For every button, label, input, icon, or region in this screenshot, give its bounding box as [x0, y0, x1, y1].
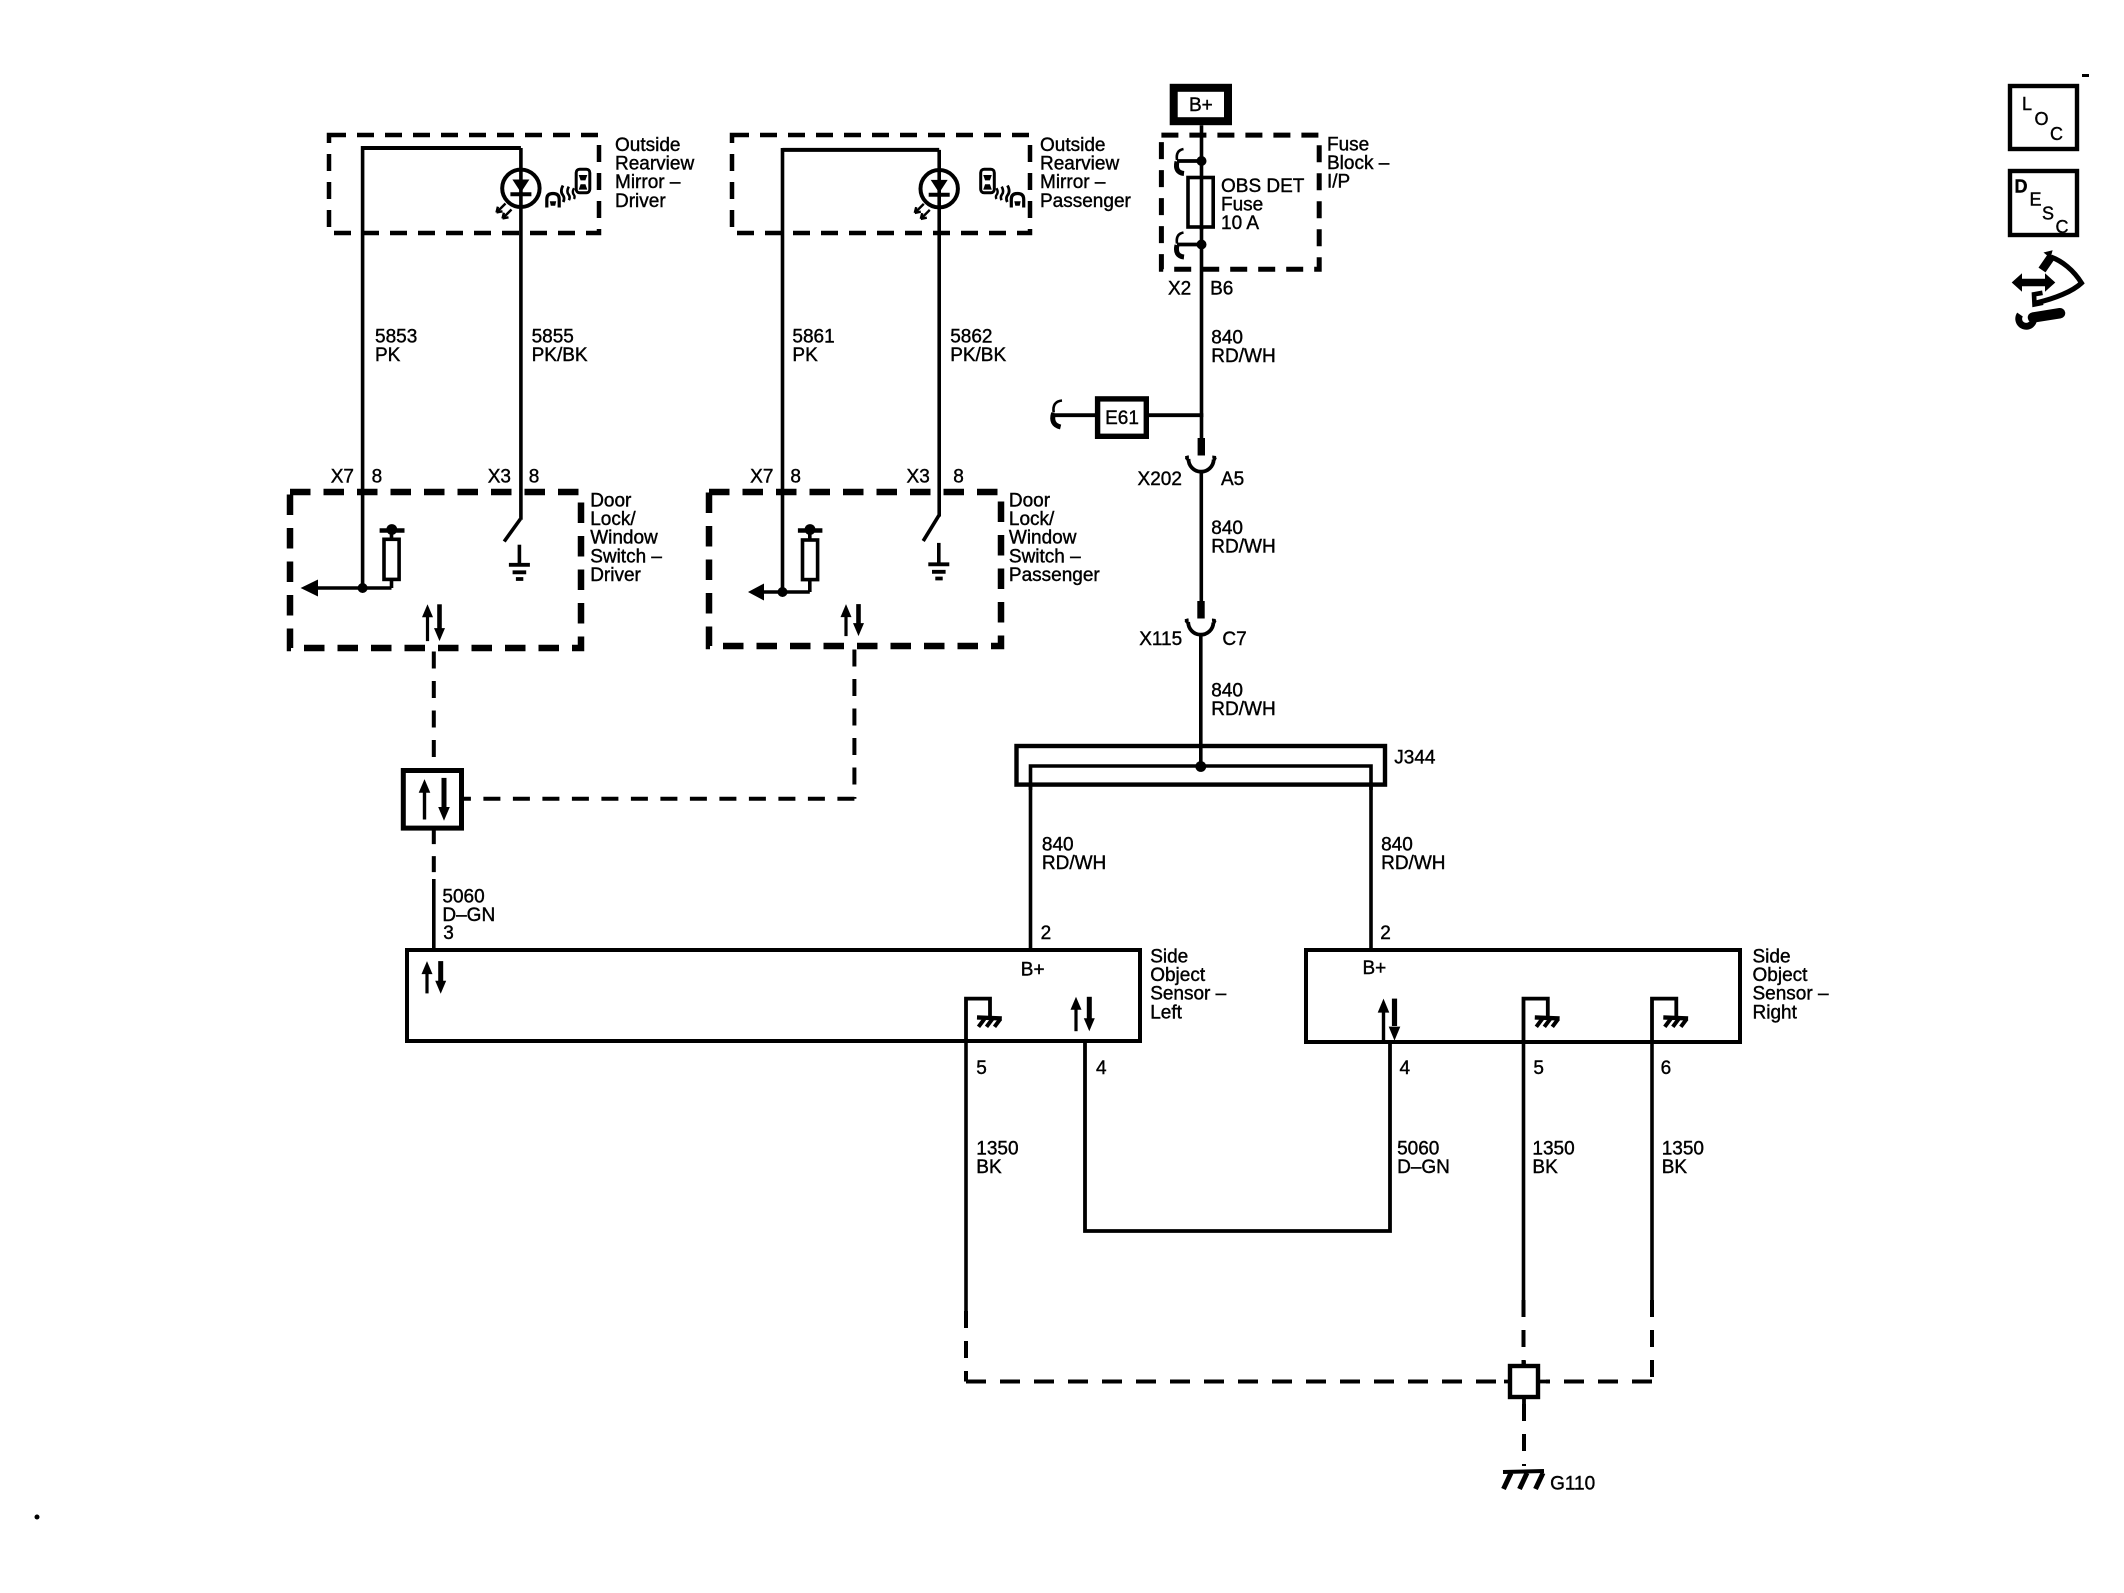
wire label 840 RD/WH (left drop): [1042, 835, 1106, 875]
arrowhead left (passenger switch): [748, 584, 764, 601]
door lock/window switch driver dashed box: [290, 492, 581, 648]
wire 1350 BK right sensor pin 5: [1522, 1042, 1526, 1300]
dashed ground run to G110 splice: [966, 1380, 1504, 1384]
resistor (driver switch illumination): [380, 524, 405, 588]
connector label X7 8 (driver): [331, 467, 382, 488]
svg-text:RD/WH: RD/WH: [1211, 699, 1275, 720]
wire 5060 D-GN to left sensor pin 3: [432, 879, 436, 950]
dashed wire driver switch to arrow box: [432, 652, 436, 771]
svg-text:8: 8: [372, 467, 383, 488]
splice pack J344: [1017, 746, 1386, 790]
wire 5861 PK (passenger pin X7-8): [781, 148, 785, 592]
wire X202 to X115: [1200, 471, 1204, 604]
service icon wrench: [2019, 313, 2060, 326]
wire fuse to X202: [1200, 227, 1204, 440]
B+ power symbol: [1174, 88, 1228, 121]
wire 5853 PK (driver pin X7-8): [361, 146, 365, 588]
outside rearview mirror passenger dashed box: [732, 135, 1030, 233]
junction dot (passenger switch): [778, 587, 788, 597]
ground (driver switch): [509, 545, 530, 579]
dashed wire right pin 6 to G110 splice: [1546, 1380, 1652, 1384]
service icon double arrow: [2012, 273, 2056, 292]
svg-text:8: 8: [529, 467, 540, 488]
svg-text:Driver: Driver: [590, 565, 641, 586]
wire B+ to fuse: [1200, 125, 1204, 230]
svg-text:J344: J344: [1394, 748, 1436, 769]
wire mirror driver internal top: [363, 146, 521, 150]
ground (right sensor pin 5 internal): [1524, 999, 1560, 1040]
wire label 1350 BK (left): [976, 1139, 1018, 1179]
fuse terminal upper: [1176, 149, 1206, 174]
switch blade (driver): [504, 519, 520, 542]
resistor (passenger switch illumination): [798, 524, 823, 592]
svg-text:X7: X7: [331, 467, 354, 488]
svg-text:BK: BK: [1532, 1157, 1558, 1178]
svg-text:X202: X202: [1138, 469, 1182, 490]
svg-text:2: 2: [1041, 923, 1052, 944]
svg-text:8: 8: [790, 467, 801, 488]
dashed wire left pin 5 to ground run: [964, 1311, 968, 1382]
ground (passenger switch): [928, 543, 949, 579]
side object sensor left box: [407, 950, 1140, 1041]
outside rearview mirror driver dashed box: [329, 135, 599, 233]
wire 5855 PK/BK (driver pin X3-8): [519, 148, 523, 520]
wire label 840 RD/WH (2): [1211, 518, 1275, 558]
svg-text:4: 4: [1096, 1058, 1107, 1079]
up/down arrows (left sensor pin 4): [1071, 997, 1095, 1031]
svg-text:C7: C7: [1222, 629, 1246, 650]
wire 5060 D-GN pin4 to pin4: [1085, 1041, 1390, 1231]
wire X115 to J344: [1199, 634, 1203, 769]
up/down arrows (driver switch): [422, 604, 445, 641]
dashed wire passenger to arrow box horizontal: [462, 797, 855, 801]
ground splice junction box: [1504, 1361, 1546, 1405]
svg-text:B6: B6: [1210, 279, 1233, 300]
wire 5862 PK/BK (passenger pin X3-8): [937, 150, 941, 517]
svg-text:X115: X115: [1139, 629, 1182, 650]
up/down arrows (right sensor pin 4): [1378, 999, 1401, 1041]
up/down arrows (left sensor pin 3): [422, 961, 447, 994]
wire label 5060 D-GN: [442, 887, 495, 927]
svg-text:A5: A5: [1221, 469, 1244, 490]
label: Side Object Sensor - Right: [1753, 947, 1829, 1024]
label: OBS DET Fuse 10 A: [1221, 176, 1305, 234]
svg-text:C: C: [2050, 124, 2063, 144]
svg-text:D: D: [2015, 177, 2028, 197]
wire 840 RD/WH J344 to right sensor pin 2: [1369, 786, 1373, 950]
wire label 5060 D-GN (right): [1397, 1139, 1450, 1179]
splice E61: [1098, 399, 1147, 436]
fuse OBS DET 10A: [1188, 178, 1213, 228]
svg-text:RD/WH: RD/WH: [1211, 346, 1275, 367]
label X202 / A5: [1138, 469, 1245, 490]
svg-text:X3: X3: [488, 467, 511, 488]
wire mirror passenger internal top: [783, 148, 940, 152]
inline connector X115 C7: [1186, 601, 1216, 635]
DESC legend box: [2010, 171, 2077, 237]
wire label 1350 BK (right): [1662, 1139, 1704, 1179]
svg-text:2: 2: [1380, 923, 1391, 944]
svg-text:RD/WH: RD/WH: [1211, 537, 1275, 558]
label X115 / C7: [1139, 629, 1246, 650]
ground G110: [1503, 1471, 1544, 1489]
switch blade (passenger): [923, 516, 939, 541]
svg-text:I/P: I/P: [1327, 172, 1350, 193]
wire label 5853 PK: [375, 327, 417, 367]
dashed wire passenger switch drop: [852, 650, 856, 799]
svg-text:O: O: [2035, 109, 2049, 129]
page mark bottom left: [35, 1515, 40, 1520]
wire label 840 RD/WH (right drop): [1381, 835, 1445, 875]
wire label 5855 PK/BK: [532, 327, 588, 367]
svg-text:5: 5: [976, 1058, 987, 1079]
wire label 840 RD/WH (3): [1211, 681, 1275, 721]
page mark top right: [2082, 74, 2089, 77]
fuse block I/P dashed box: [1161, 135, 1319, 269]
blind zone alert icon (passenger mirror): [981, 169, 1024, 207]
svg-text:PK: PK: [375, 345, 401, 366]
dashed wire right pin 5 to G110 splice: [1522, 1300, 1526, 1366]
LED indicator (driver mirror): [497, 170, 540, 219]
window motor arrow box: [403, 771, 461, 829]
svg-text:4: 4: [1400, 1058, 1411, 1079]
label: Side Object Sensor - Left: [1150, 947, 1226, 1024]
wire E61 left lead: [1054, 413, 1098, 417]
svg-text:6: 6: [1661, 1058, 1672, 1079]
svg-text:E: E: [2030, 190, 2042, 210]
svg-text:10 A: 10 A: [1221, 213, 1259, 234]
junction dot (driver switch): [358, 583, 368, 593]
arrowhead left (driver switch): [301, 580, 318, 597]
fuse terminal lower: [1176, 233, 1206, 258]
svg-text:Passenger: Passenger: [1040, 191, 1132, 212]
svg-text:X7: X7: [750, 467, 773, 488]
wire 840 RD/WH J344 to left sensor pin 2: [1029, 786, 1033, 950]
svg-text:X3: X3: [907, 467, 930, 488]
wire to arrow (passenger switch common): [764, 590, 810, 594]
wire label 1350 BK (middle): [1532, 1139, 1574, 1179]
wire 1350 BK left sensor pin 5: [964, 1041, 968, 1311]
wire 1350 BK right sensor pin 6: [1650, 1042, 1654, 1300]
svg-text:3: 3: [443, 923, 454, 944]
connector label X2 B6: [1168, 279, 1233, 300]
svg-text:RD/WH: RD/WH: [1042, 853, 1106, 874]
svg-text:PK: PK: [792, 345, 818, 366]
connector label X3 8 (passenger): [907, 467, 964, 488]
svg-text:E61: E61: [1105, 408, 1139, 429]
svg-text:PK/BK: PK/BK: [532, 345, 588, 366]
svg-text:Left: Left: [1150, 1002, 1182, 1023]
terminal curl (E61 left): [1053, 401, 1062, 428]
connector label X7 8 (passenger): [750, 467, 801, 488]
svg-text:BK: BK: [976, 1157, 1002, 1178]
svg-text:B+: B+: [1021, 960, 1045, 981]
svg-text:G110: G110: [1550, 1474, 1595, 1495]
svg-text:8: 8: [953, 467, 964, 488]
blind zone alert icon (driver mirror): [547, 169, 590, 207]
up/down arrows (passenger switch): [841, 604, 865, 636]
svg-text:X2: X2: [1168, 279, 1191, 300]
label: Door Lock/Window Switch - Passenger: [1009, 491, 1101, 586]
svg-text:PK/BK: PK/BK: [950, 345, 1006, 366]
svg-text:C: C: [2056, 217, 2069, 237]
door lock/window switch passenger dashed box: [709, 492, 1001, 646]
label: Outside Rearview Mirror - Driver: [615, 135, 694, 212]
svg-text:B+: B+: [1189, 95, 1213, 116]
inline connector X202 A5: [1186, 438, 1216, 472]
svg-text:Passenger: Passenger: [1009, 565, 1101, 586]
svg-text:Driver: Driver: [615, 191, 666, 212]
wire label 5861 PK: [792, 327, 834, 367]
svg-text:L: L: [2022, 94, 2032, 114]
svg-text:S: S: [2042, 204, 2054, 224]
ground (right sensor pin 6 internal): [1652, 999, 1688, 1040]
LOC legend box: [2010, 86, 2077, 149]
svg-text:Right: Right: [1753, 1002, 1798, 1023]
svg-text:D–GN: D–GN: [1397, 1157, 1450, 1178]
label: Door Lock/Window Switch - Driver: [590, 491, 662, 586]
ground (left sensor internal): [966, 999, 1002, 1039]
wire to arrow (driver switch common): [318, 586, 392, 590]
dashed wire right pin 6 down: [1650, 1300, 1654, 1382]
connector label X3 8 (driver): [488, 467, 540, 488]
dashed wire below arrow box: [432, 828, 436, 881]
LED indicator (passenger mirror): [915, 170, 958, 219]
svg-text:BK: BK: [1662, 1157, 1688, 1178]
svg-text:B+: B+: [1363, 958, 1387, 979]
service icon outline arrow: [2034, 250, 2082, 304]
wire label 5862 PK/BK: [950, 327, 1006, 367]
svg-text:5: 5: [1533, 1058, 1544, 1079]
wire label 840 RD/WH (1): [1211, 328, 1275, 368]
svg-text:RD/WH: RD/WH: [1381, 853, 1445, 874]
dashed wire splice to G110: [1522, 1404, 1526, 1466]
label: Outside Rearview Mirror - Passenger: [1040, 135, 1132, 212]
label: Fuse Block - I/P: [1327, 135, 1390, 193]
side object sensor right box: [1306, 950, 1740, 1042]
wire E61 right lead: [1146, 413, 1203, 417]
